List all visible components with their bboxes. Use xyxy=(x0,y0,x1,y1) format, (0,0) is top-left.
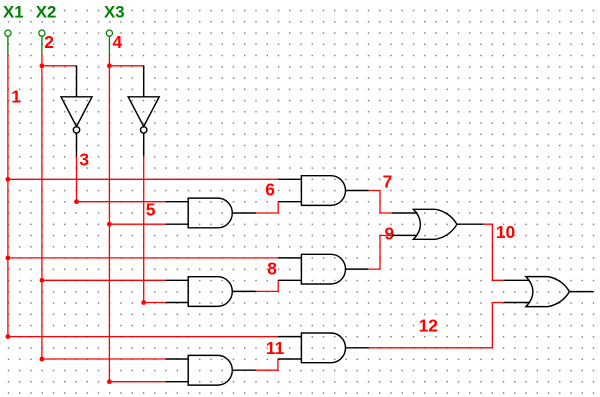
wire net 9 (U6 out to OR1 bottom) xyxy=(368,235,392,269)
svg-text:4: 4 xyxy=(113,32,123,52)
wire net 12 (U8 out to OR2 bottom) xyxy=(369,303,504,348)
AND gate U5 xyxy=(166,277,256,307)
svg-text:2: 2 xyxy=(44,32,54,52)
AND gate U3 xyxy=(166,198,256,228)
wire net 2 (X2 vertical) xyxy=(41,55,43,360)
wire net 2 branch to gate U7 top xyxy=(42,358,166,360)
wire net 5 (to U3 top) xyxy=(77,201,166,203)
wire net 6 (U3 out jog) xyxy=(256,202,278,213)
wire net X3 branch to gate U3 bottom xyxy=(109,223,165,225)
wire net 10 (OR1 out to OR2 top) xyxy=(483,224,504,280)
NOT gate U2 xyxy=(128,66,159,156)
svg-text:7: 7 xyxy=(383,171,393,191)
svg-text:9: 9 xyxy=(385,223,395,243)
AND gate U4 xyxy=(278,176,368,206)
junction net4b xyxy=(141,300,146,305)
wire net 1 branch to gate U8 top xyxy=(8,336,278,338)
svg-text:3: 3 xyxy=(79,149,89,169)
wire net 3 (NOT1 out) xyxy=(76,156,78,202)
junction X3-row xyxy=(107,222,112,227)
wire net X3 branch to NOT2 xyxy=(109,65,144,67)
svg-text:8: 8 xyxy=(267,259,277,279)
junction net5 xyxy=(74,199,79,204)
AND gate U6 xyxy=(278,254,368,284)
junction X1-row4 xyxy=(6,334,11,339)
wire net 4b (NOT2 out) xyxy=(143,156,145,303)
svg-text:6: 6 xyxy=(265,180,275,200)
svg-text:X2: X2 xyxy=(36,3,57,22)
svg-text:X3: X3 xyxy=(104,3,125,22)
junction X3-bottom xyxy=(107,379,112,384)
wire net 7 (U4 out to OR1 top) xyxy=(369,191,393,214)
wire net 1 branch to gate U4 top xyxy=(8,178,278,180)
wire net 2 branch to NOT1 xyxy=(42,65,77,67)
svg-text:10: 10 xyxy=(496,222,515,242)
svg-text:11: 11 xyxy=(266,338,285,358)
junction X1-row2 xyxy=(6,177,11,182)
wire net 1 branch to gate U6 top xyxy=(8,257,278,259)
svg-text:X1: X1 xyxy=(3,3,24,22)
AND gate U7 xyxy=(166,355,256,385)
input terminal X2 xyxy=(39,30,45,55)
junction X2-NOT1 xyxy=(40,63,45,68)
OR gate U10 xyxy=(504,277,594,307)
junction X2-bottom xyxy=(40,357,45,362)
wire net 2 branch to gate U5 top xyxy=(42,279,166,281)
wire net 11 (U7 out jog) xyxy=(256,359,278,370)
input terminal X3 xyxy=(106,30,112,55)
wire net X3 vertical xyxy=(108,55,110,382)
junction X2-row xyxy=(40,278,45,283)
svg-text:12: 12 xyxy=(419,316,438,336)
wire net 1 (X1 vertical) xyxy=(7,55,9,337)
junction X1-row3 xyxy=(6,256,11,261)
wire net X3 branch to gate U7 bottom xyxy=(109,381,165,383)
NOT gate U1 xyxy=(61,66,92,156)
AND gate U8 xyxy=(278,333,369,363)
junction X3-NOT2 xyxy=(107,63,112,68)
input terminal X1 xyxy=(5,30,11,55)
svg-text:1: 1 xyxy=(11,86,21,106)
svg-text:5: 5 xyxy=(146,199,156,219)
OR gate U9 xyxy=(392,209,483,239)
wire net 4b branch to U5 bottom xyxy=(144,302,166,304)
wire net 8 (U5 out jog) xyxy=(256,280,278,291)
